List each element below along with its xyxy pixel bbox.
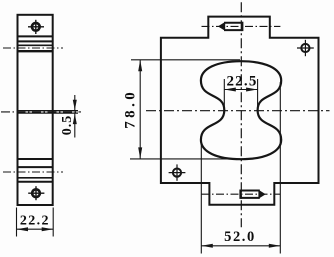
left view bottom mounting hole xyxy=(28,186,44,200)
svg-text:0.5: 0.5 xyxy=(60,115,75,136)
left view top groove line 4 xyxy=(18,50,54,52)
top right corner hole xyxy=(297,40,314,56)
left view bottom groove line 3 xyxy=(18,177,54,179)
left view top groove line 3 xyxy=(18,44,54,46)
horizontal centerline xyxy=(146,110,330,112)
left view bottom groove line 1 xyxy=(18,158,54,160)
svg-text:22.2: 22.2 xyxy=(20,214,50,229)
left view 0.5 step upper edge xyxy=(18,110,79,112)
bottom left corner hole xyxy=(169,164,186,180)
dimension 22.2 extension line right xyxy=(52,208,54,237)
dimension 78.0 bottom extension line xyxy=(130,158,240,160)
left view top groove line 1 xyxy=(18,35,54,37)
dimension 0.5 lower leader arrow xyxy=(73,114,77,138)
dimension 22.2 extension line left xyxy=(16,208,18,237)
dimension 22.5 extension line right xyxy=(257,79,259,110)
dimension 22.5 line with arrows xyxy=(224,88,257,92)
vertical centerline xyxy=(240,2,242,227)
bottom slot centerline xyxy=(202,193,281,195)
dimension 22.2 line with arrows xyxy=(17,227,54,231)
right view plate outline xyxy=(161,17,319,205)
left view bottom groove line 2 xyxy=(18,166,54,168)
left view bottom centerline xyxy=(3,171,63,173)
left view top groove line 2 xyxy=(18,40,54,42)
top slot with arrow terminal xyxy=(218,22,242,31)
dimension 0.5 upper leader arrow xyxy=(73,95,77,110)
svg-text:22.5: 22.5 xyxy=(226,74,257,90)
dimension 52.0 extension line left xyxy=(200,138,202,254)
svg-text:78.0: 78.0 xyxy=(123,89,139,129)
svg-text:52.0: 52.0 xyxy=(224,229,256,245)
dimension 22.5 extension line left xyxy=(223,79,225,110)
left view top centerline xyxy=(3,47,63,49)
dimension 52.0 extension line right xyxy=(279,82,281,254)
left view 0.5 step lower edge xyxy=(18,112,79,114)
top slot centerline xyxy=(202,25,281,27)
left view middle centerline xyxy=(1,111,81,113)
bottom slot with arrow terminal xyxy=(241,190,266,199)
dimension 78.0 top extension line xyxy=(131,59,240,61)
left view top mounting hole xyxy=(28,20,44,34)
dimension 78.0 line with arrows xyxy=(138,60,142,159)
dimension 52.0 line with arrows xyxy=(201,244,280,248)
left view body outline xyxy=(18,15,53,205)
dumbbell shaped hole xyxy=(201,61,281,159)
left view bottom groove line 4 xyxy=(18,181,54,183)
